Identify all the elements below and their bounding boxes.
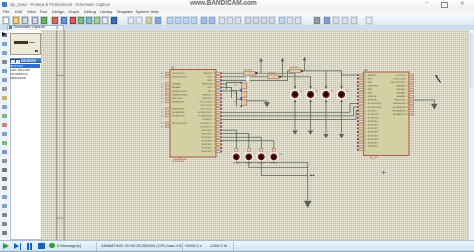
svg-text:RC1/T1OSI: RC1/T1OSI (200, 105, 211, 107)
svg-text:Memory: Memory (232, 163, 239, 165)
wire button 3 ground rail (261, 161, 307, 176)
svg-text:23: 23 (213, 109, 215, 111)
button SW1 (231, 148, 241, 164)
svg-text:RC2/CCP1: RC2/CCP1 (201, 109, 212, 111)
svg-text:RE1/AN6/WR: RE1/AN6/WR (392, 109, 406, 112)
resistor R4 (vertical) (234, 82, 246, 90)
button SW3 (256, 148, 266, 164)
wire U1 pin to R2 (222, 76, 267, 78)
svg-text:31: 31 (364, 82, 366, 84)
svg-text:RD2/PSP2: RD2/PSP2 (201, 137, 212, 139)
svg-text:RD0/PSP0: RD0/PSP0 (201, 130, 212, 132)
svg-text:OSC1/CLKIN: OSC1/CLKIN (171, 73, 184, 75)
svg-text:15: 15 (213, 137, 215, 139)
svg-text:R2 330R: R2 330R (268, 73, 276, 75)
svg-text:20: 20 (364, 121, 366, 123)
microcontroller U1 PIC16F877A (161, 66, 222, 164)
svg-text:RC4/SDI/SDA: RC4/SDI/SDA (198, 115, 212, 118)
svg-text:--: -- (415, 78, 417, 80)
svg-text:22: 22 (364, 114, 366, 116)
svg-text:RD6/PSP6: RD6/PSP6 (367, 142, 378, 144)
resistor R5 (vertical) (234, 90, 246, 98)
wire R1 to LED D1 anode (255, 73, 295, 90)
svg-text:MCLR/Vpp/THV: MCLR/Vpp/THV (171, 123, 187, 125)
microcontroller U2 PIC16F877A (356, 68, 416, 158)
svg-text:RD0/PSP0: RD0/PSP0 (367, 121, 378, 123)
svg-text:13: 13 (161, 109, 163, 111)
svg-text:29: 29 (364, 89, 366, 91)
node R1 output state dot (255, 72, 257, 74)
svg-text:R5: R5 (234, 93, 236, 95)
svg-text:RA5/AN4/SS: RA5/AN4/SS (393, 102, 406, 105)
wire button 1 and 4 ground rail (236, 161, 307, 162)
svg-text:--: -- (415, 75, 417, 77)
svg-text:U6: U6 (315, 91, 318, 93)
svg-text:6: 6 (407, 89, 408, 91)
svg-text:RC7/RX/DT: RC7/RX/DT (200, 126, 212, 128)
svg-text:13: 13 (213, 144, 215, 146)
svg-text:RB7/PGD: RB7/PGD (367, 100, 377, 102)
svg-text:13: 13 (161, 94, 163, 96)
svg-text:U1: U1 (171, 66, 175, 70)
svg-text:13: 13 (364, 146, 366, 148)
svg-text:VCC/VDD: VCC/VDD (395, 75, 405, 77)
wire staircase U1 SPI pins (222, 82, 241, 84)
resistor R3 (289, 67, 300, 73)
svg-text:33: 33 (364, 75, 366, 77)
svg-text:RD1/PSP1: RD1/PSP1 (367, 125, 378, 127)
wire R6 to ground (246, 101, 266, 102)
svg-text:13: 13 (161, 87, 163, 89)
wire U1 RD pin to button 4 (222, 141, 273, 149)
svg-text:13: 13 (161, 91, 163, 93)
svg-text:RA0/AN0: RA0/AN0 (396, 84, 406, 87)
svg-text:RC5/SDO: RC5/SDO (202, 119, 212, 121)
svg-text:RD7/PSP7: RD7/PSP7 (367, 146, 378, 148)
svg-text:13: 13 (161, 73, 163, 75)
svg-text:8: 8 (407, 96, 408, 98)
wire button 2 ground rail (248, 161, 307, 168)
svg-text:14: 14 (213, 141, 215, 143)
svg-text:RC3/SCK/SCL: RC3/SCK/SCL (367, 103, 382, 105)
svg-text:22: 22 (213, 112, 215, 114)
svg-text:PIC16F877A: PIC16F877A (172, 160, 184, 163)
svg-text:OSC2/CLKOUT: OSC2/CLKOUT (171, 77, 187, 79)
wire SPI bus SDI (222, 107, 357, 116)
svg-text:33: 33 (213, 73, 215, 75)
svg-text:5: 5 (407, 85, 408, 87)
wire SPI bus SDO (222, 111, 357, 120)
svg-text:U8: U8 (346, 91, 349, 93)
wire U2 pin to right ground (414, 100, 434, 103)
resistor R1 (243, 69, 254, 75)
svg-text:13: 13 (161, 98, 163, 100)
svg-text:RA3/AN3/VREF+: RA3/AN3/VREF+ (171, 93, 188, 96)
ground terminal under LED D2 (307, 131, 312, 135)
svg-text:RD3/PSP3: RD3/PSP3 (201, 141, 212, 143)
svg-text:32: 32 (213, 77, 215, 79)
svg-text:28: 28 (213, 91, 215, 93)
wire LED D1 cathode (294, 99, 296, 130)
svg-text:RD3/PSP3: RD3/PSP3 (367, 132, 378, 134)
svg-text:18: 18 (213, 126, 215, 128)
wire U1 pin to R1 (222, 72, 244, 74)
svg-text:11: 11 (213, 151, 215, 153)
svg-text:18: 18 (364, 128, 366, 130)
svg-text:RE0/AN5/RD: RE0/AN5/RD (392, 106, 405, 109)
sheet origin marker (381, 172, 385, 174)
svg-text:13: 13 (161, 84, 163, 86)
svg-text:OSC2/CLKOUT: OSC2/CLKOUT (390, 82, 406, 84)
svg-text:R3 330R: R3 330R (290, 67, 298, 69)
svg-text:12: 12 (213, 148, 215, 150)
svg-text:28: 28 (364, 93, 366, 95)
svg-text:R1 330R: R1 330R (244, 69, 252, 71)
svg-text:13: 13 (161, 112, 163, 114)
svg-text:13: 13 (161, 126, 163, 128)
svg-text:17: 17 (364, 132, 366, 134)
svg-text:R4: R4 (234, 85, 236, 87)
LED D4 (336, 86, 349, 102)
svg-text:14: 14 (364, 142, 366, 144)
svg-text:Memory: Memory (270, 163, 277, 165)
ground terminal near resistor cluster (263, 102, 269, 107)
svg-text:13: 13 (161, 116, 163, 118)
svg-text:9: 9 (407, 100, 408, 102)
svg-text:24: 24 (213, 105, 215, 107)
wire LED D4 cathode (340, 99, 342, 134)
svg-text:16: 16 (364, 135, 366, 137)
svg-text:30: 30 (364, 85, 366, 87)
ground terminal under LED D4 (338, 134, 343, 138)
svg-text:RA1/AN1: RA1/AN1 (396, 88, 406, 91)
svg-text:13: 13 (406, 114, 408, 116)
svg-text:19: 19 (213, 123, 215, 125)
wire LED D3 cathode (325, 99, 327, 134)
svg-text:16: 16 (213, 133, 215, 135)
svg-text:RC7/RX/DT: RC7/RX/DT (367, 117, 379, 119)
svg-text:23: 23 (364, 110, 366, 112)
svg-text:RE0/AN5/RD: RE0/AN5/RD (171, 108, 184, 111)
svg-text:U5: U5 (299, 91, 302, 93)
highlighted component white box (246, 77, 249, 81)
svg-text:--: -- (415, 107, 417, 109)
svg-text:12: 12 (364, 149, 366, 151)
svg-text:U7: U7 (330, 91, 333, 93)
svg-text:RC5/SDO: RC5/SDO (367, 110, 377, 112)
svg-text:RD5/PSP5: RD5/PSP5 (367, 139, 378, 141)
svg-text:RB3/PGM: RB3/PGM (202, 84, 212, 86)
svg-text:OSC1/CLKIN: OSC1/CLKIN (392, 78, 405, 80)
power terminal VCC arrow 1 (259, 58, 263, 73)
svg-text:26: 26 (364, 100, 366, 102)
svg-text:21: 21 (213, 116, 215, 118)
svg-text:21: 21 (364, 117, 366, 119)
svg-text:RD1/PSP1: RD1/PSP1 (201, 133, 212, 135)
svg-text:--: -- (415, 110, 417, 112)
svg-text:29: 29 (213, 87, 215, 89)
svg-text:RA4/T0CKI: RA4/T0CKI (394, 99, 405, 102)
svg-text:RC3/SCK/SCL: RC3/SCK/SCL (197, 112, 212, 114)
svg-text:RB7/PGD: RB7/PGD (202, 98, 212, 100)
wire U1 RD pin to button 1 (222, 130, 236, 148)
svg-text:RB3/PGM: RB3/PGM (367, 85, 377, 87)
wire LED rail to U2 pin (341, 71, 357, 75)
ground terminal right of U2 (431, 104, 437, 110)
node R2 output state dot (278, 76, 280, 78)
ground terminal for buttons (303, 201, 311, 208)
svg-text:RC6/TX/CK: RC6/TX/CK (200, 123, 212, 125)
svg-text:4: 4 (407, 82, 408, 84)
power terminal VCC arrow 3 (302, 57, 306, 71)
svg-text:RA5/AN4/SS: RA5/AN4/SS (171, 100, 184, 103)
svg-text:--: -- (415, 85, 417, 87)
svg-text:11: 11 (406, 107, 408, 109)
svg-text:2: 2 (407, 75, 408, 77)
svg-text:--: -- (415, 82, 417, 84)
svg-text:RD4/PSP4: RD4/PSP4 (367, 135, 378, 137)
svg-text:31: 31 (213, 80, 215, 82)
resistor R2 (267, 73, 278, 79)
svg-text:R6: R6 (234, 102, 236, 104)
svg-text:D4: D4 (279, 154, 283, 156)
wire U1 RD pin to button 2 (222, 134, 249, 149)
svg-text:32: 32 (364, 78, 366, 80)
LED D3 (320, 86, 333, 102)
node R3 output state dot (300, 70, 302, 72)
button SW2 (243, 148, 253, 164)
svg-text:U2: U2 (364, 68, 368, 72)
svg-text:RA4/T0CKI: RA4/T0CKI (171, 97, 182, 100)
svg-text:13: 13 (161, 123, 163, 125)
svg-text:RE2/AN7/CS: RE2/AN7/CS (171, 115, 184, 118)
wire LED D2 cathode (309, 99, 311, 130)
svg-text:12: 12 (406, 110, 408, 112)
mouse cursor (435, 76, 440, 83)
svg-text:RB6/PGC: RB6/PGC (367, 96, 377, 98)
wire U1 pin riser to R3 (222, 71, 289, 81)
LED D1 (289, 86, 302, 102)
wire ground collector (306, 162, 308, 200)
svg-text:RA2/AN2/VREF-: RA2/AN2/VREF- (171, 90, 187, 93)
svg-text:30: 30 (213, 84, 215, 86)
svg-text:RB6/PGC: RB6/PGC (202, 94, 212, 96)
svg-text:15: 15 (364, 139, 366, 141)
svg-text:27: 27 (364, 96, 366, 98)
svg-text:RD6/PSP6: RD6/PSP6 (201, 151, 212, 153)
resistor R6 (vertical) (234, 99, 246, 107)
svg-text:RD2/PSP2: RD2/PSP2 (367, 128, 378, 130)
svg-text:RC0/T1OSO: RC0/T1OSO (199, 101, 211, 103)
LED D2 (305, 86, 318, 102)
svg-text:--: -- (415, 93, 417, 95)
ground terminal under LED D3 (323, 134, 328, 138)
svg-text:19: 19 (364, 125, 366, 127)
svg-text:24: 24 (364, 107, 366, 109)
svg-text:17: 17 (213, 130, 215, 132)
svg-text:--: -- (415, 114, 417, 116)
svg-text:--: -- (415, 96, 417, 98)
svg-text:7: 7 (407, 93, 408, 95)
button SW4 (268, 148, 278, 164)
svg-text:10: 10 (406, 103, 408, 105)
svg-text:RB0/INT: RB0/INT (203, 73, 212, 75)
svg-text:RA2/AN2: RA2/AN2 (396, 92, 406, 95)
svg-text:25: 25 (213, 101, 215, 103)
svg-text:26: 26 (213, 98, 215, 100)
svg-text:13: 13 (161, 77, 163, 79)
svg-text:25: 25 (364, 103, 366, 105)
svg-text:RA3/AN3: RA3/AN3 (396, 95, 406, 98)
sheet border (55, 30, 57, 240)
svg-text:RE2/AN7/CS: RE2/AN7/CS (392, 113, 405, 116)
power terminal VCC arrow 2 (280, 58, 284, 77)
svg-text:RA1/AN1: RA1/AN1 (171, 86, 181, 89)
svg-text:27: 27 (213, 94, 215, 96)
svg-text:RE1/AN6/WR: RE1/AN6/WR (171, 111, 185, 114)
svg-text:RC6/TX/CK: RC6/TX/CK (367, 114, 379, 116)
wire R2 to LED D2 anode (278, 77, 310, 90)
svg-text:RB0/INT: RB0/INT (367, 75, 376, 77)
svg-text:RD5/PSP5: RD5/PSP5 (201, 148, 212, 150)
wire SPI bus SCK (222, 103, 357, 112)
svg-text:3: 3 (407, 78, 408, 80)
svg-text:RC4/SDI/SDA: RC4/SDI/SDA (367, 106, 381, 109)
svg-text:RA0/AN0: RA0/AN0 (171, 83, 181, 86)
svg-text:13: 13 (161, 101, 163, 103)
ground terminal under LED D1 (292, 131, 297, 135)
svg-text:--: -- (415, 103, 417, 105)
svg-text:--: -- (415, 89, 417, 91)
svg-text:20: 20 (213, 119, 215, 121)
wire R3 to LED D3 and LED D4 anodes and U2 (300, 71, 325, 90)
wire U1 RD pin to button 3 (222, 137, 261, 148)
svg-text:RD4/PSP4: RD4/PSP4 (201, 144, 212, 146)
